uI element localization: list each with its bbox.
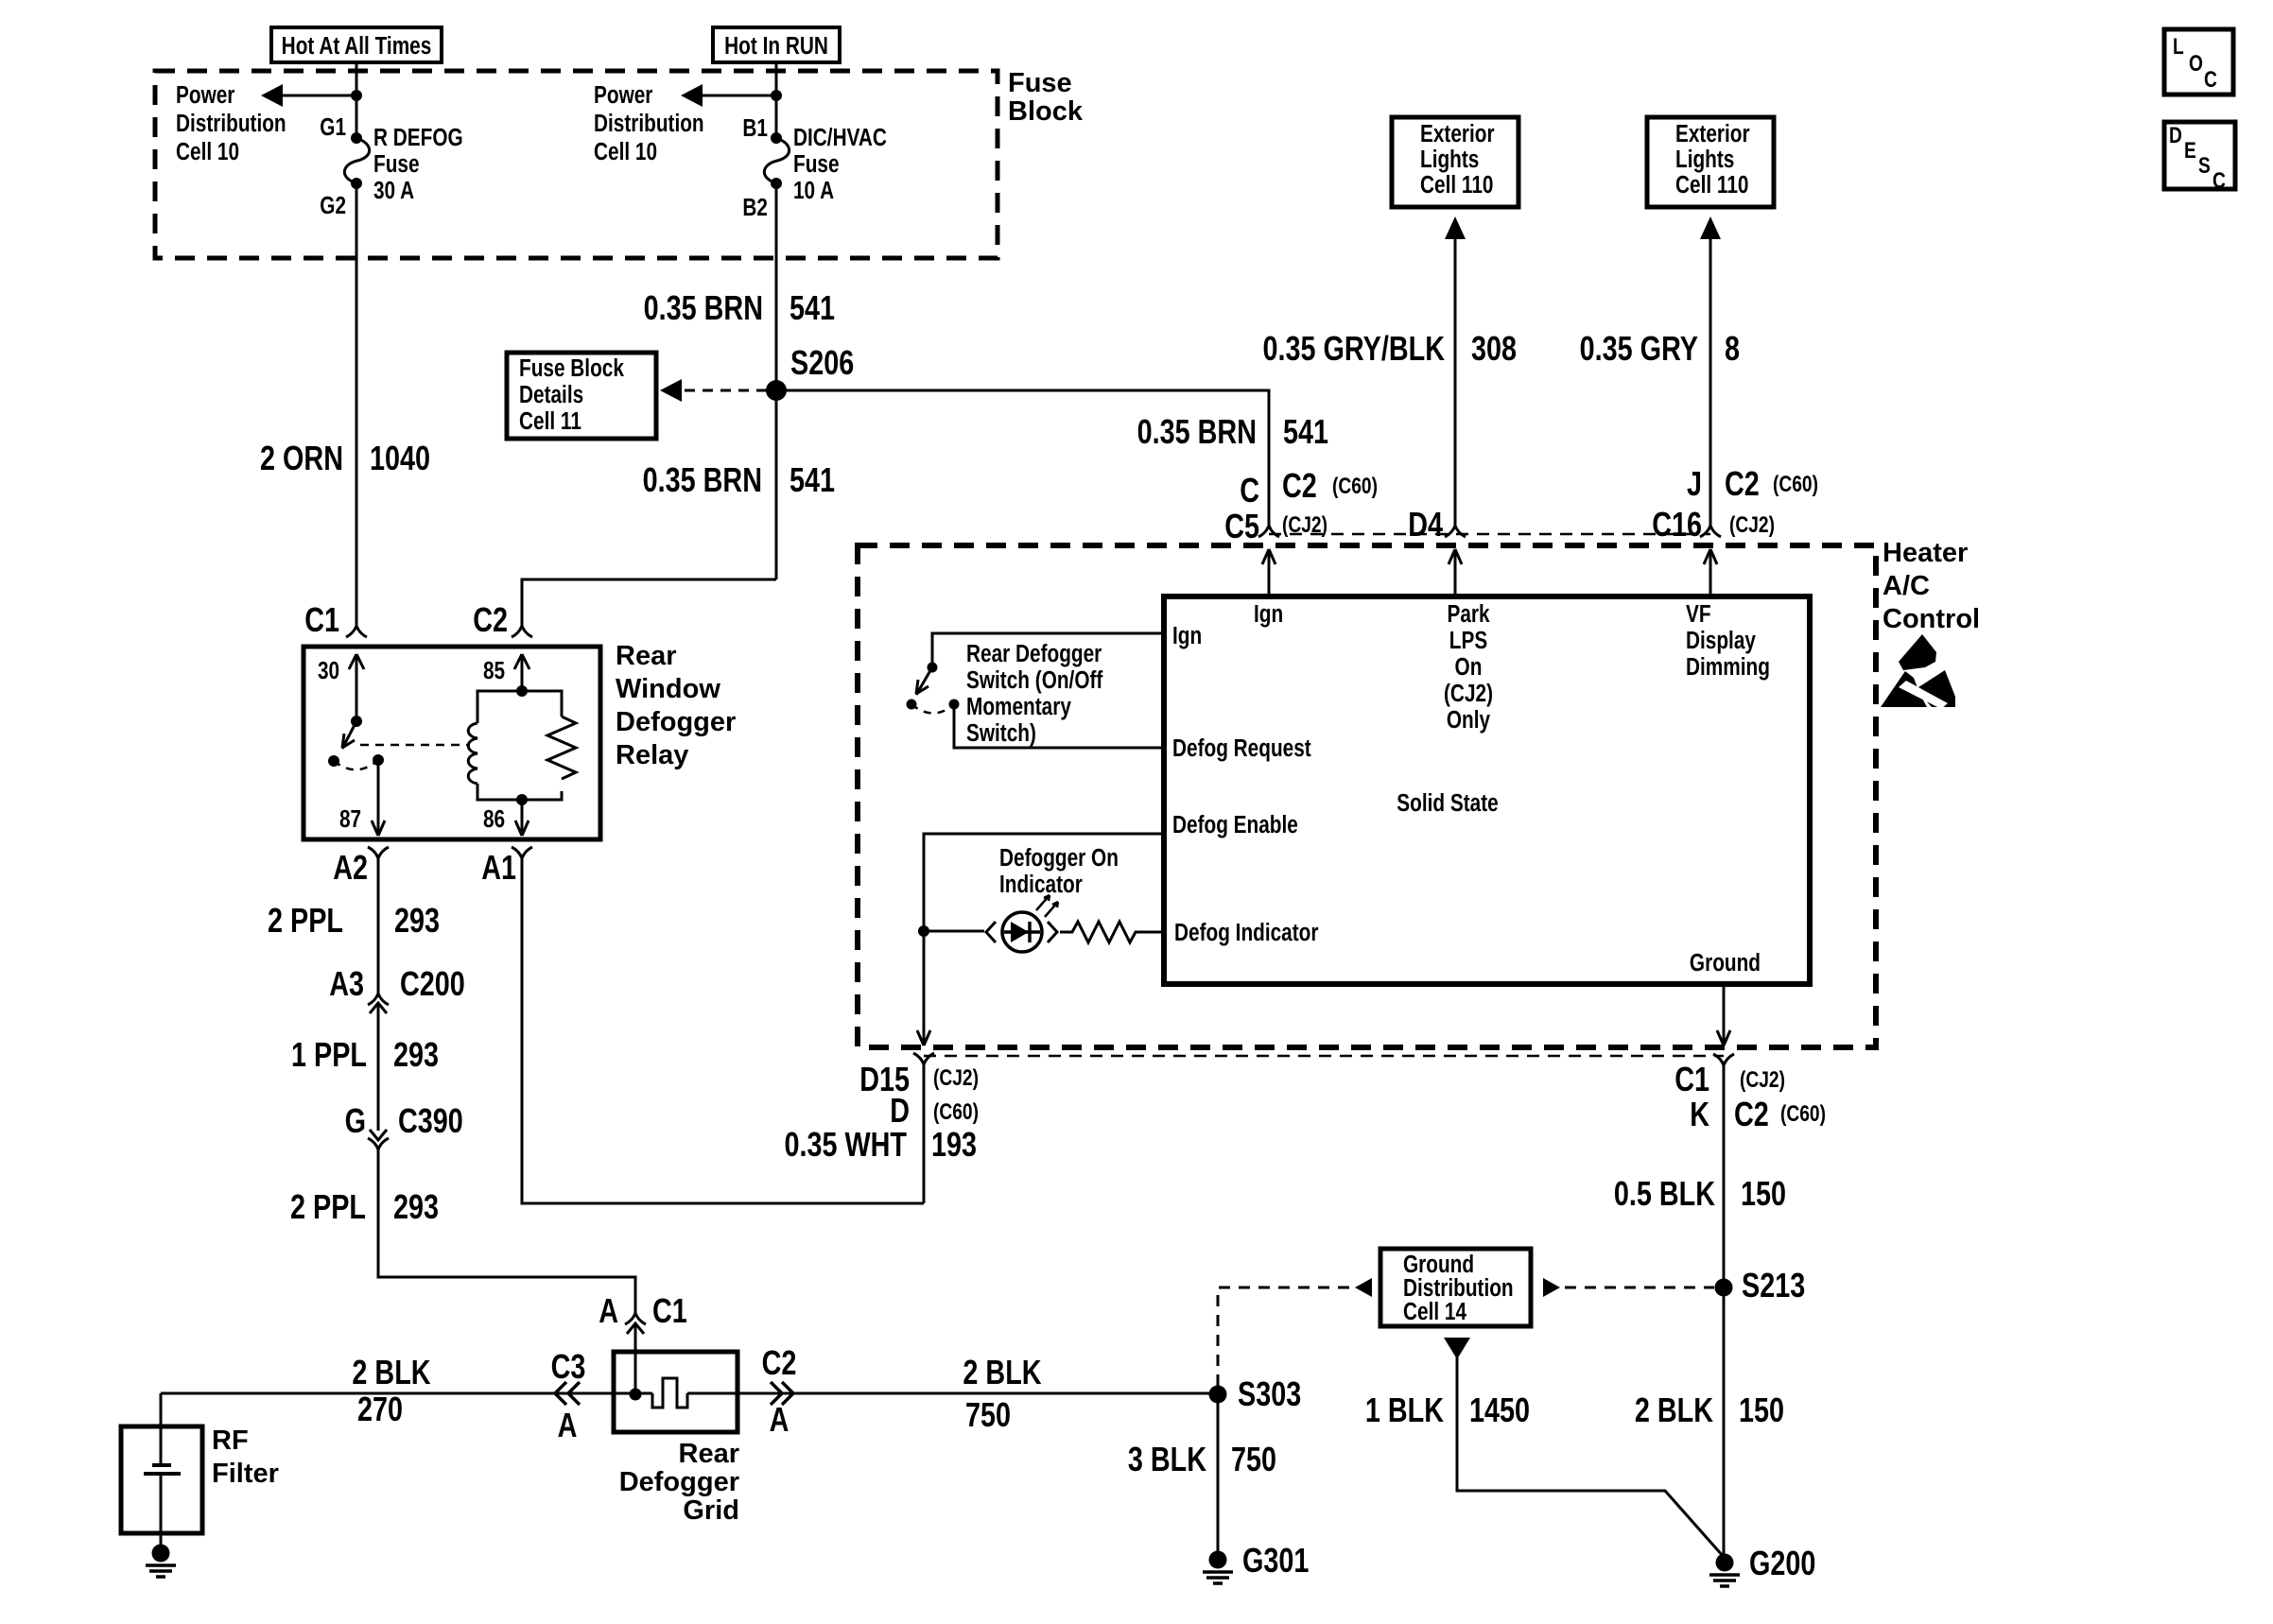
- wire from Hot In RUN to fuse B1: [775, 62, 778, 138]
- svg-text:O: O: [2189, 50, 2203, 77]
- wire C16 up to exterior lights: [1709, 238, 1712, 526]
- svg-text:10 A: 10 A: [793, 177, 834, 204]
- junction dot B feed: [771, 90, 782, 101]
- svg-text:Cell 14: Cell 14: [1403, 1298, 1466, 1325]
- svg-text:0.35 GRY: 0.35 GRY: [1580, 329, 1699, 368]
- switch contact dot right: [949, 700, 960, 710]
- arrowhead into exterior lights left: [1445, 216, 1466, 239]
- svg-text:Grid: Grid: [683, 1495, 739, 1526]
- svg-text:(CJ2): (CJ2): [1282, 511, 1327, 538]
- connector A1 below relay: [512, 847, 532, 858]
- svg-text:A3: A3: [329, 964, 364, 1003]
- svg-text:B1: B1: [742, 114, 768, 142]
- rear defogger switch dashed arc: [911, 704, 954, 714]
- svg-text:C2: C2: [1725, 464, 1760, 503]
- svg-text:2 PPL: 2 PPL: [268, 901, 343, 940]
- svg-text:150: 150: [1741, 1174, 1786, 1213]
- ground symbol RF filter: [146, 1545, 176, 1578]
- svg-text:C2: C2: [762, 1343, 797, 1382]
- wire from fuse B2 down through S206: [775, 183, 778, 579]
- svg-text:G: G: [345, 1101, 366, 1140]
- svg-text:Cell 110: Cell 110: [1420, 171, 1493, 199]
- svg-text:Park: Park: [1447, 600, 1490, 628]
- svg-text:Block: Block: [1008, 96, 1084, 127]
- relay coil top node dot: [516, 685, 528, 697]
- svg-text:C5: C5: [1224, 507, 1259, 545]
- arrowhead ground distribution right: [1543, 1278, 1560, 1297]
- svg-text:Cell 110: Cell 110: [1675, 171, 1748, 199]
- wire A1 down and right to D15 riser: [522, 858, 924, 1203]
- wire from Hot At All Times to fuse G1: [356, 62, 358, 138]
- box Hot In RUN: [713, 27, 840, 62]
- connector D4 Y: [1445, 526, 1466, 537]
- svg-text:Defogger: Defogger: [616, 707, 736, 737]
- svg-text:0.35 BRN: 0.35 BRN: [643, 460, 762, 499]
- svg-text:(C60): (C60): [1780, 1100, 1826, 1127]
- relay pin 86 wire with down arrow: [515, 800, 529, 836]
- RF filter capacitor lead top: [160, 1393, 163, 1465]
- svg-text:Window: Window: [616, 674, 720, 704]
- heater Ign pin arrow wire: [1262, 549, 1275, 596]
- connector G/C390 double chevron: [368, 1130, 389, 1149]
- svg-text:Defogger: Defogger: [619, 1467, 739, 1497]
- svg-text:C1: C1: [304, 600, 339, 639]
- svg-text:2 BLK: 2 BLK: [963, 1353, 1042, 1391]
- svg-text:Defog Request: Defog Request: [1172, 734, 1311, 762]
- wire A2 chain down to grid feed: [378, 858, 635, 1394]
- svg-text:Rear: Rear: [616, 641, 677, 671]
- svg-text:C3: C3: [551, 1347, 586, 1386]
- relay coil bottom node dot: [516, 794, 528, 805]
- switch pivot dot: [928, 663, 938, 673]
- fuse terminal dot G1: [351, 132, 362, 144]
- svg-text:Hot In RUN: Hot In RUN: [724, 32, 828, 60]
- relay coil rectangle top and sides: [477, 691, 562, 800]
- svg-text:Distribution: Distribution: [176, 110, 286, 137]
- svg-text:Switch (On/Off: Switch (On/Off: [966, 666, 1102, 694]
- svg-text:C2: C2: [473, 600, 508, 639]
- svg-text:C16: C16: [1652, 505, 1702, 544]
- svg-text:293: 293: [394, 901, 440, 940]
- fuse terminal dot G2: [351, 178, 362, 189]
- svg-text:Only: Only: [1447, 706, 1490, 734]
- svg-text:0.5 BLK: 0.5 BLK: [1614, 1174, 1716, 1213]
- arrowhead ground distribution left: [1355, 1278, 1372, 1297]
- node S206: [766, 380, 787, 401]
- relay pin 30 wire with up arrow: [349, 654, 364, 721]
- relay contact dot 87: [373, 754, 384, 766]
- svg-text:30 A: 30 A: [373, 177, 414, 204]
- svg-text:Defog Enable: Defog Enable: [1172, 811, 1298, 838]
- switch contact dot left: [907, 700, 917, 710]
- connector C2 double chevron: [771, 1382, 793, 1405]
- box RF Filter: [121, 1426, 202, 1533]
- svg-text:Hot At All Times: Hot At All Times: [282, 32, 432, 60]
- LED circle: [1002, 912, 1042, 952]
- svg-text:A: A: [770, 1400, 789, 1439]
- svg-text:Cell 11: Cell 11: [519, 407, 581, 435]
- svg-text:G1: G1: [320, 113, 346, 141]
- svg-text:Fuse Block: Fuse Block: [519, 354, 625, 382]
- rear defogger switch wire to Ign input: [932, 633, 1164, 667]
- relay switch pivot dot: [351, 716, 362, 727]
- ground symbol G301: [1203, 1551, 1233, 1584]
- junction dot G feed: [351, 90, 362, 101]
- svg-text:Solid State: Solid State: [1397, 789, 1498, 817]
- svg-text:Exterior: Exterior: [1675, 120, 1750, 147]
- svg-text:0.35 WHT: 0.35 WHT: [784, 1125, 907, 1164]
- thin dashed connector line top: [1269, 533, 1710, 536]
- SEC1: [304, 626, 924, 1394]
- fuse R DEFOG symbol: [344, 138, 369, 183]
- svg-text:750: 750: [1231, 1440, 1276, 1478]
- box Ground Distribution Cell 14: [1380, 1249, 1531, 1326]
- svg-text:(C60): (C60): [1332, 473, 1378, 499]
- LED inner wire: [1004, 930, 1040, 934]
- svg-text:Fuse: Fuse: [1008, 68, 1072, 98]
- svg-text:86: 86: [483, 805, 505, 833]
- svg-text:Rear Defogger: Rear Defogger: [966, 640, 1102, 667]
- svg-text:B2: B2: [742, 194, 768, 221]
- svg-text:C2: C2: [1282, 466, 1317, 505]
- ESD symbol: [1899, 634, 1936, 670]
- rear defogger switch arm: [916, 667, 932, 695]
- relay pin 87 wire with down arrow: [372, 760, 385, 836]
- svg-text:RF: RF: [212, 1425, 249, 1456]
- svg-text:On: On: [1455, 653, 1483, 681]
- svg-text:2 ORN: 2 ORN: [260, 439, 343, 477]
- svg-text:(CJ2): (CJ2): [1740, 1066, 1785, 1093]
- svg-text:G2: G2: [320, 192, 346, 219]
- LED light rays: [1036, 895, 1058, 917]
- SEC3: [121, 1249, 1724, 1557]
- fuse DIC/HVAC symbol: [764, 138, 789, 183]
- svg-text:30: 30: [318, 657, 339, 684]
- dashed wire S303 riser to ground distribution: [1218, 1287, 1350, 1386]
- svg-text:DIC/HVAC: DIC/HVAC: [793, 124, 887, 151]
- arrowhead power distribution 1: [261, 84, 283, 107]
- solid state box: [1164, 596, 1810, 984]
- svg-text:Indicator: Indicator: [999, 871, 1083, 898]
- defog enable junction dot: [918, 925, 929, 937]
- fuse terminal dot B1: [771, 132, 782, 144]
- relay switch arm: [342, 721, 356, 749]
- svg-text:C390: C390: [398, 1101, 463, 1140]
- connector C16 Y: [1700, 526, 1721, 537]
- svg-text:270: 270: [357, 1390, 403, 1428]
- svg-text:Fuse: Fuse: [373, 150, 420, 178]
- svg-text:(C60): (C60): [933, 1098, 979, 1125]
- RF filter capacitor lead bottom: [160, 1474, 163, 1546]
- svg-text:541: 541: [789, 288, 835, 327]
- ground bus wire from RF filter to grid: [161, 1392, 652, 1395]
- svg-text:VF: VF: [1686, 600, 1711, 628]
- svg-text:A2: A2: [333, 848, 368, 887]
- svg-text:Lights: Lights: [1420, 146, 1479, 173]
- svg-text:2 BLK: 2 BLK: [1635, 1391, 1714, 1429]
- svg-text:(C60): (C60): [1773, 471, 1818, 497]
- defog enable wire from box to LED junction and exit arrow: [917, 834, 1164, 1045]
- svg-text:Display: Display: [1686, 627, 1756, 654]
- ground bus wire from grid to S303: [687, 1392, 1218, 1395]
- svg-text:Exterior: Exterior: [1420, 120, 1495, 147]
- svg-text:Dimming: Dimming: [1686, 653, 1770, 681]
- box Hot At All Times: [271, 27, 442, 62]
- svg-text:C1: C1: [1674, 1060, 1709, 1098]
- svg-text:Distribution: Distribution: [594, 110, 704, 137]
- rear defogger switch output to Defog Request: [954, 704, 1164, 748]
- SEC2: [858, 29, 2235, 1555]
- svg-text:Cell 10: Cell 10: [594, 138, 657, 165]
- relay coil bumps: [468, 723, 477, 784]
- svg-text:E: E: [2184, 137, 2196, 164]
- grid bus junction dot: [630, 1389, 642, 1401]
- svg-text:0.35 BRN: 0.35 BRN: [644, 288, 763, 327]
- svg-text:85: 85: [483, 657, 505, 684]
- svg-text:A1: A1: [481, 848, 516, 887]
- svg-text:2 BLK: 2 BLK: [352, 1353, 431, 1391]
- svg-text:Ign: Ign: [1172, 622, 1202, 649]
- svg-text:D4: D4: [1408, 505, 1443, 544]
- svg-text:0.35 BRN: 0.35 BRN: [1137, 412, 1257, 451]
- arrowhead power distribution 2: [681, 84, 703, 107]
- wire arrow to power distribution left: [279, 95, 356, 97]
- svg-text:Heater: Heater: [1883, 538, 1968, 568]
- box Exterior Lights Cell 110 (left): [1392, 117, 1518, 207]
- svg-text:A/C: A/C: [1883, 571, 1930, 601]
- svg-text:LPS: LPS: [1449, 627, 1487, 654]
- svg-text:541: 541: [789, 460, 835, 499]
- resistor to defog indicator: [1060, 922, 1164, 942]
- heater ground pin wire with down arrow: [1717, 984, 1730, 1045]
- connector C3 double chevron: [555, 1382, 580, 1405]
- svg-text:150: 150: [1739, 1391, 1784, 1429]
- box DESC: [2164, 122, 2235, 189]
- svg-text:Switch): Switch): [966, 719, 1036, 747]
- dashed wire ground distribution to S213: [1565, 1287, 1714, 1289]
- svg-text:1040: 1040: [370, 439, 430, 477]
- svg-text:D: D: [2169, 122, 2182, 148]
- node S213: [1715, 1279, 1733, 1297]
- svg-text:C: C: [2204, 66, 2217, 93]
- connector D15 Y: [913, 1053, 934, 1064]
- svg-text:Rear: Rear: [679, 1439, 740, 1469]
- thin dashed connector line bottom: [924, 1055, 1724, 1058]
- LED cathode bar: [1028, 922, 1032, 942]
- wire D15 riser: [923, 1064, 926, 1203]
- svg-text:(CJ2): (CJ2): [933, 1064, 979, 1091]
- svg-text:G301: G301: [1242, 1541, 1309, 1580]
- chevron right of LED: [1048, 922, 1057, 942]
- svg-text:C2: C2: [1734, 1095, 1769, 1133]
- svg-text:193: 193: [931, 1125, 977, 1164]
- connector A3/C200 double chevron: [368, 993, 389, 1013]
- wire S303 down to G301: [1217, 1394, 1220, 1551]
- svg-text:293: 293: [393, 1187, 439, 1226]
- svg-text:K: K: [1690, 1095, 1709, 1133]
- svg-text:Lights: Lights: [1675, 146, 1734, 173]
- arrowhead into exterior lights right: [1700, 216, 1721, 239]
- svg-text:S213: S213: [1742, 1266, 1805, 1304]
- defog indicator LED wire left: [924, 930, 984, 933]
- heater Park pin arrow wire: [1449, 549, 1462, 596]
- wire arrow to power distribution left (2nd): [699, 95, 776, 97]
- svg-text:Power: Power: [176, 81, 234, 109]
- svg-text:1 PPL: 1 PPL: [291, 1035, 367, 1074]
- svg-text:D: D: [890, 1091, 910, 1130]
- svg-text:308: 308: [1471, 329, 1517, 368]
- svg-text:S206: S206: [790, 343, 854, 382]
- svg-text:1 BLK: 1 BLK: [1365, 1391, 1445, 1429]
- svg-text:Ground: Ground: [1690, 949, 1761, 976]
- svg-text:Fuse: Fuse: [793, 150, 840, 178]
- svg-text:A: A: [599, 1291, 618, 1330]
- svg-text:J: J: [1687, 464, 1702, 503]
- svg-text:Relay: Relay: [616, 740, 688, 770]
- svg-text:Power: Power: [594, 81, 652, 109]
- dashed wire S206 to Fuse Block Details: [681, 389, 767, 392]
- connector C2 at relay: [512, 626, 532, 637]
- wire D4 up to exterior lights: [1454, 238, 1457, 526]
- svg-text:750: 750: [965, 1395, 1011, 1434]
- svg-text:L: L: [2173, 33, 2184, 60]
- ground wire down through S213 to G200: [1723, 1065, 1726, 1555]
- box Rear Defogger Grid: [614, 1352, 737, 1432]
- RF filter capacitor plates: [144, 1465, 181, 1474]
- relay box Rear Window Defogger Relay: [304, 647, 600, 839]
- svg-text:C1: C1: [652, 1291, 687, 1330]
- connector C1 Y bottom: [1713, 1054, 1734, 1065]
- svg-text:0.35 GRY/BLK: 0.35 GRY/BLK: [1263, 329, 1446, 368]
- fuse terminal dot B2: [771, 178, 782, 189]
- svg-text:S303: S303: [1238, 1374, 1301, 1413]
- arrowhead ground distribution down: [1444, 1338, 1470, 1359]
- ground symbol G200: [1709, 1554, 1740, 1587]
- wire S206 branch down-left to relay C2 connector: [522, 579, 776, 626]
- svg-text:Cell 10: Cell 10: [176, 138, 239, 165]
- svg-text:S: S: [2198, 152, 2211, 179]
- arrowhead to Fuse Block Details: [660, 379, 682, 402]
- svg-text:Defogger On: Defogger On: [999, 844, 1119, 872]
- svg-text:(CJ2): (CJ2): [1729, 511, 1775, 538]
- svg-text:Control: Control: [1883, 604, 1980, 634]
- chevron left of LED: [986, 922, 996, 942]
- connector A2 below relay: [368, 847, 389, 858]
- svg-text:C: C: [2212, 167, 2226, 194]
- svg-text:Filter: Filter: [212, 1459, 279, 1489]
- box Fuse Block Details: [507, 353, 656, 439]
- svg-text:Defog Indicator: Defog Indicator: [1174, 919, 1318, 946]
- wire 1 BLK from ground distribution to G200: [1457, 1357, 1724, 1557]
- svg-text:A: A: [558, 1406, 578, 1444]
- svg-text:G200: G200: [1749, 1544, 1815, 1582]
- connector A/C1 double chevron at grid: [625, 1313, 646, 1334]
- wire from S206 right to heater Ign drop: [776, 390, 1269, 526]
- relay switch contact dashed arc: [334, 760, 378, 769]
- LED diode triangle: [1011, 922, 1029, 942]
- svg-text:Ign: Ign: [1254, 600, 1283, 628]
- svg-text:Momentary: Momentary: [966, 693, 1071, 720]
- wire from fuse G2 down to relay C1 connector: [356, 183, 358, 626]
- svg-text:R DEFOG: R DEFOG: [373, 124, 463, 151]
- svg-text:C200: C200: [400, 964, 465, 1003]
- svg-text:8: 8: [1725, 329, 1740, 368]
- relay resistor zigzag: [547, 717, 576, 779]
- svg-text:C: C: [1240, 471, 1259, 510]
- connector C5 Y: [1258, 526, 1279, 537]
- heater VF pin arrow wire: [1704, 549, 1717, 596]
- svg-text:2 PPL: 2 PPL: [290, 1187, 366, 1226]
- relay mechanical link dashed: [360, 744, 470, 747]
- svg-text:(CJ2): (CJ2): [1444, 680, 1493, 707]
- svg-text:Details: Details: [519, 381, 583, 408]
- svg-text:1450: 1450: [1469, 1391, 1530, 1429]
- relay pin 85 wire with up arrow: [514, 654, 529, 691]
- box LOC: [2164, 29, 2233, 95]
- svg-text:87: 87: [339, 805, 361, 833]
- relay contact dot left: [328, 755, 339, 767]
- fuse block dashed box: [155, 71, 998, 258]
- svg-text:541: 541: [1283, 412, 1328, 451]
- heater A/C control dashed box: [858, 545, 1876, 1047]
- svg-text:3 BLK: 3 BLK: [1128, 1440, 1207, 1478]
- rear defogger grid element: [652, 1378, 687, 1408]
- connector C1 at relay: [346, 626, 367, 637]
- box Exterior Lights Cell 110 (right): [1647, 117, 1774, 207]
- node S303: [1209, 1386, 1227, 1404]
- svg-text:293: 293: [393, 1035, 439, 1074]
